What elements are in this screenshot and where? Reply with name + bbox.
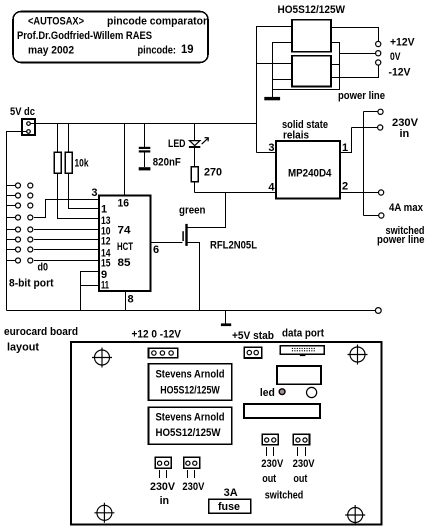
svg-text:led: led <box>260 387 275 399</box>
eurocard board outline <box>71 342 382 525</box>
wire relay pin 3 <box>257 152 277 154</box>
svg-text:19: 19 <box>181 44 194 56</box>
svg-text:74: 74 <box>118 225 132 237</box>
svg-text:may 2002: may 2002 <box>28 45 74 57</box>
svg-text:1: 1 <box>101 204 107 216</box>
svg-text:RFL2N05L: RFL2N05L <box>210 240 257 252</box>
svg-text:230V: 230V <box>261 458 284 470</box>
svg-text:pincode:: pincode: <box>138 45 177 57</box>
svg-text:HCT: HCT <box>117 241 133 253</box>
svg-text:11: 11 <box>101 280 109 292</box>
dc-dc converter U3 <box>292 20 331 52</box>
wire converter grounds <box>273 43 293 97</box>
connector 8-bit port <box>7 183 33 263</box>
svg-text:+12 0 -12V: +12 0 -12V <box>132 329 182 341</box>
svg-text:8: 8 <box>128 294 134 306</box>
wire switched bottom <box>364 215 379 217</box>
terminal 230V in top <box>378 109 383 114</box>
wire 5V to converters and relay pin3 <box>257 27 293 153</box>
svg-text:in: in <box>160 495 170 507</box>
terminal 4A max top <box>379 190 384 195</box>
mounting hole top-left <box>92 348 112 368</box>
svg-text:HO5S12/125W: HO5S12/125W <box>278 4 346 16</box>
svg-text:270: 270 <box>204 166 222 178</box>
svg-text:12: 12 <box>101 236 111 248</box>
wire 230V in bottom <box>352 127 378 129</box>
svg-text:power line: power line <box>338 90 385 102</box>
wire port row7 to pin 14 <box>34 249 99 251</box>
svg-text:eurocard board: eurocard board <box>4 326 78 338</box>
svg-text:Prof.Dr.Godfried-Willem RAES: Prof.Dr.Godfried-Willem RAES <box>17 30 152 42</box>
terminal bar stub <box>221 323 231 326</box>
connector J6 230V out right <box>293 434 309 456</box>
svg-text:2: 2 <box>342 181 348 193</box>
svg-text:+12V: +12V <box>390 36 415 48</box>
dc-dc converter U4 <box>292 56 331 87</box>
relay footprint box <box>277 366 321 384</box>
terminal 230V in bottom <box>378 125 383 130</box>
svg-text:230V: 230V <box>182 481 205 493</box>
wire port row8 to pin 15 <box>34 260 99 262</box>
svg-text:+5V stab: +5V stab <box>232 330 274 342</box>
svg-text:relais: relais <box>283 129 309 141</box>
svg-text:-12V: -12V <box>389 67 412 79</box>
svg-text:out: out <box>262 473 276 485</box>
svg-text:<AUTOSAX>: <AUTOSAX> <box>28 16 84 28</box>
mounting hole top-right <box>348 345 368 365</box>
LED D1 <box>189 124 208 167</box>
wire -12V out <box>331 65 379 77</box>
svg-text:8-bit port: 8-bit port <box>9 278 54 290</box>
terminal -12V <box>376 60 381 65</box>
svg-text:green: green <box>179 205 206 217</box>
connector J5 230V out left <box>262 434 278 456</box>
svg-text:layout: layout <box>7 341 39 353</box>
wire 230V in top <box>364 111 378 113</box>
svg-text:230V: 230V <box>150 481 176 493</box>
wire pins 9 and 11 to ground <box>81 272 100 311</box>
svg-text:85: 85 <box>118 257 131 269</box>
svg-text:switched: switched <box>265 490 304 502</box>
svg-text:16: 16 <box>118 198 130 210</box>
wire port row4 to pin 3 <box>34 200 99 218</box>
connector J3 5V 2-hole <box>244 347 262 358</box>
connector J2 power 3-hole <box>149 348 178 358</box>
heatsink box <box>244 404 320 418</box>
svg-text:15: 15 <box>101 258 111 270</box>
fuse F1 <box>209 499 251 513</box>
wire +12V out <box>331 28 379 42</box>
title box <box>13 12 208 63</box>
wire 5V rail <box>31 123 257 125</box>
wire R3 to relay pin 4 <box>195 192 277 194</box>
svg-text:4: 4 <box>268 182 275 194</box>
wire 0V out <box>340 53 376 55</box>
svg-text:0V: 0V <box>390 51 401 63</box>
wire left bus <box>7 132 27 311</box>
IC U1 74HCT85 <box>99 196 151 292</box>
solid state relay U2 MP240D4 <box>276 141 340 199</box>
svg-text:3A: 3A <box>224 487 238 499</box>
wire relay pin 2 <box>340 192 379 194</box>
svg-text:pincode comparator: pincode comparator <box>107 16 208 28</box>
svg-text:in: in <box>400 128 410 140</box>
svg-text:d0: d0 <box>38 262 49 274</box>
svg-text:HO5S12/125W: HO5S12/125W <box>160 385 220 397</box>
connector J1 5V dc <box>22 119 35 135</box>
svg-text:Stevens Arnold: Stevens Arnold <box>156 412 225 424</box>
terminal 0V <box>376 51 381 56</box>
svg-text:10k: 10k <box>75 158 90 170</box>
capacitor C1 820nF <box>139 124 151 171</box>
wire 0V wrap <box>273 43 340 90</box>
svg-text:6: 6 <box>153 244 159 256</box>
svg-text:230V: 230V <box>293 458 316 470</box>
mounting hole bottom-right <box>345 505 365 525</box>
module M2 Stevens Arnold <box>149 407 232 444</box>
mounting hole bottom-left <box>94 503 114 523</box>
wire ground rail <box>7 310 376 312</box>
svg-text:data port: data port <box>282 328 324 340</box>
wire port row5 to pin 10 <box>34 229 99 231</box>
svg-text:820nF: 820nF <box>153 156 181 168</box>
svg-text:power line: power line <box>377 234 425 246</box>
resistor R2 10k <box>65 124 99 209</box>
svg-text:3: 3 <box>91 187 97 199</box>
connector J7 230V in left <box>155 457 171 478</box>
wire stub to board <box>225 311 227 324</box>
terminal switched bottom <box>379 213 384 218</box>
ground bar <box>264 97 280 100</box>
terminal ground rail <box>375 308 381 314</box>
transistor Q1 RFL2N05L <box>183 224 199 311</box>
data port pin pattern <box>292 348 315 351</box>
connector J8 230V in right <box>184 457 200 478</box>
svg-text:4A max: 4A max <box>389 202 424 214</box>
wire pin 6 to gate <box>151 242 183 244</box>
resistor R3 270 <box>191 167 198 193</box>
wire pin 16 to 5V rail <box>124 124 126 196</box>
resistor R1 10k <box>54 124 99 219</box>
svg-text:Stevens Arnold: Stevens Arnold <box>156 369 225 381</box>
wire port row6 to pin 12 <box>34 239 99 241</box>
led indicator <box>279 389 285 395</box>
connector J4 data port <box>280 346 324 356</box>
terminal +12V <box>376 41 381 46</box>
svg-text:HO5S12/125W: HO5S12/125W <box>156 427 222 439</box>
module M1 Stevens Arnold <box>149 364 232 400</box>
svg-text:fuse: fuse <box>218 501 240 513</box>
wire relay pin 1 <box>340 128 352 153</box>
svg-text:5V dc: 5V dc <box>10 106 35 118</box>
hole for led <box>307 387 317 397</box>
svg-text:out: out <box>293 473 307 485</box>
wire pin 8 to ground rail <box>125 291 127 311</box>
svg-text:LED: LED <box>168 138 186 150</box>
wire 230V bus <box>363 112 365 216</box>
svg-text:MP240D4: MP240D4 <box>288 168 332 180</box>
wire drain branch <box>188 193 226 228</box>
